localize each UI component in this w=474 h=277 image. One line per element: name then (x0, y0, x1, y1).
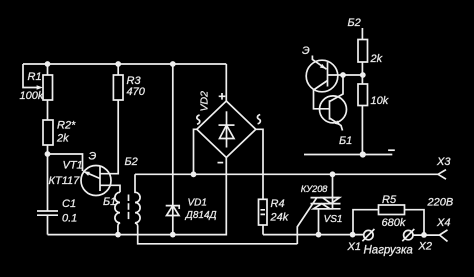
svg-text:X4: X4 (436, 217, 450, 229)
svg-text:10k: 10k (371, 95, 389, 107)
svg-text:2k: 2k (56, 133, 69, 145)
wire mid (to X3) (135, 173, 438, 175)
svg-text:680k: 680k (382, 217, 406, 229)
wire emitter of VT1 (48, 154, 83, 171)
node junction VD1 bottom (170, 232, 176, 238)
wire 10k to bottom (361, 106, 363, 155)
svg-text:R2*: R2* (57, 120, 76, 132)
node junction bridge-left / secondary top (191, 171, 197, 177)
svg-text:100k: 100k (20, 90, 44, 102)
terminal X1 (362, 229, 374, 241)
transistor VT-npn (sub lower) (320, 75, 347, 131)
svg-text:X3: X3 (436, 156, 451, 168)
svg-text:VD1: VD1 (188, 198, 207, 209)
node junction R3 top (115, 61, 121, 67)
transformer T1 secondary winding (135, 174, 297, 244)
triac VS1 КУ208 (297, 174, 340, 244)
transformer core (128, 195, 130, 220)
svg-text:2k: 2k (370, 53, 383, 65)
svg-text:X2: X2 (418, 241, 432, 253)
resistor R1 (potentiometer 100k) (23, 64, 53, 120)
resistor R3 470 (117, 64, 119, 75)
capacitor C1 0.1 (37, 154, 58, 235)
svg-text:Б2: Б2 (348, 17, 361, 29)
wire 2k to 10k (361, 62, 363, 84)
resistor R4 24k (259, 199, 268, 234)
node junction R1 top (45, 61, 51, 67)
node junction VD1 top (170, 61, 176, 67)
terminal X2 (402, 229, 414, 241)
label - (bridge minus) (218, 162, 224, 164)
node junction sub bottom (360, 151, 366, 157)
terminal X3 (438, 170, 446, 180)
wire VT1 base2 to R3 (100, 100, 118, 174)
svg-text:R1: R1 (28, 71, 42, 83)
label ~ (bridge ac right) (257, 115, 260, 124)
label minus (sub) (388, 149, 395, 151)
wire sub bottom line (304, 154, 392, 156)
svg-text:Нагрузка: Нагрузка (364, 245, 413, 257)
transistor VT-pnp (sub upper) (306, 56, 362, 109)
node junction divider (360, 72, 366, 78)
svg-text:VD2: VD2 (199, 91, 211, 112)
node junction R5 right (421, 232, 427, 238)
wire bottom rail right (263, 234, 364, 236)
svg-text:КУ208: КУ208 (301, 184, 329, 194)
svg-text:Б1: Б1 (339, 135, 352, 147)
svg-text:КТ117: КТ117 (49, 175, 81, 187)
svg-text:470: 470 (127, 86, 146, 98)
svg-text:Э: Э (302, 45, 310, 57)
svg-text:220В: 220В (427, 197, 454, 209)
zener diode VD1 Д814Д (166, 64, 180, 235)
node junction VS1 anode (330, 171, 336, 177)
node junction R2/C1/emitter (45, 151, 51, 157)
node junction pnp base / npn collector (340, 72, 346, 78)
wire X2 to X4 (413, 234, 440, 236)
label ~ (bridge ac left) (197, 115, 200, 124)
transformer T1 primary winding (115, 192, 120, 234)
label + (bridge plus) (219, 93, 226, 100)
wire top rail (23, 63, 226, 65)
resistor 2k (sub) (358, 40, 368, 63)
svg-text:VT1: VT1 (63, 160, 83, 172)
svg-text:24k: 24k (270, 211, 289, 223)
bridge rectifier VD2 (194, 64, 264, 199)
wire VT1 base1 to transformer (100, 185, 120, 192)
svg-text:C1: C1 (62, 198, 76, 210)
svg-text:VS1: VS1 (324, 214, 343, 225)
wire bottom rail left (48, 158, 227, 235)
svg-text:X1: X1 (347, 241, 361, 253)
resistor R5 680k (353, 205, 424, 235)
resistor R2* 2k (43, 120, 53, 145)
terminal X4 (440, 230, 448, 242)
svg-text:Д814Д: Д814Д (185, 210, 217, 221)
transistor VT1 KT117 (unijunction) (81, 166, 111, 196)
svg-text:R4: R4 (271, 198, 285, 210)
wire Б2 lead (361, 28, 363, 40)
node junction R5 left (350, 232, 356, 238)
svg-text:Б2: Б2 (125, 156, 138, 168)
svg-text:Э: Э (89, 150, 97, 162)
resistor 10k (sub) (358, 84, 368, 106)
svg-text:R5: R5 (382, 194, 397, 206)
node junction VS1 cathode rail (316, 232, 322, 238)
svg-text:0.1: 0.1 (62, 213, 77, 225)
node junction primary-bottom rail (115, 232, 121, 238)
